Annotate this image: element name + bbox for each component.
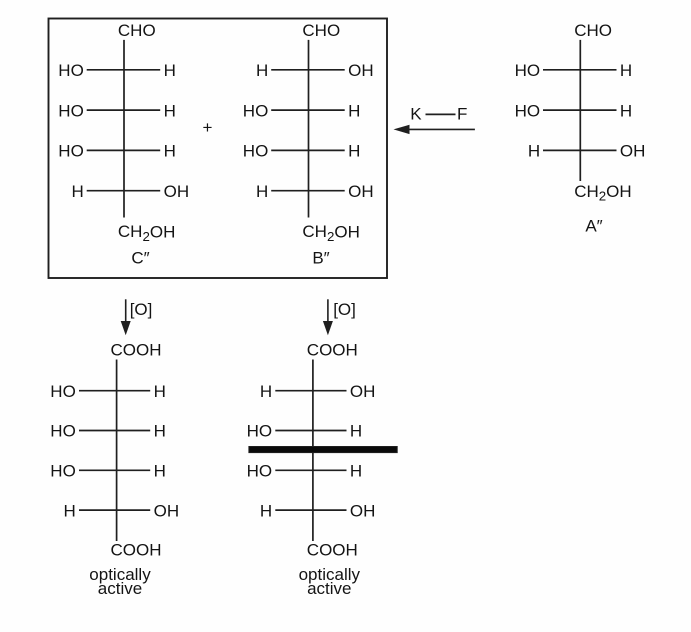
svg-text:CHO: CHO [574, 21, 612, 40]
svg-text:H: H [350, 462, 362, 481]
structure B2prime: C2 right substituent OH [348, 61, 374, 80]
structure B2prime: C5 horizontal bond [271, 190, 345, 192]
svg-text:CH2OH: CH2OH [118, 222, 175, 244]
svg-text:H: H [260, 501, 272, 520]
svg-text:[O]: [O] [333, 300, 356, 319]
structure A2prime: CH2OH bottom group [574, 182, 631, 204]
svg-text:H: H [164, 61, 176, 80]
structure C2prime: C2 right substituent H [164, 61, 176, 80]
svg-text:OH: OH [154, 501, 180, 520]
structure A2prime: C4 left substituent H [528, 142, 540, 161]
svg-text:HO: HO [515, 61, 541, 80]
svg-text:H: H [620, 101, 632, 120]
structure A2prime: C2 left substituent HO [515, 61, 541, 80]
structure B2prime: C5 right substituent OH [348, 182, 374, 201]
structure left diacid (from C"): backbone vertical line [116, 360, 118, 542]
structure left diacid (from C"): C3 left substituent HO [50, 422, 76, 441]
svg-text:CH2OH: CH2OH [574, 182, 631, 204]
structure A2prime: backbone vertical line [579, 40, 581, 181]
plus sign between C" and B" [203, 118, 213, 137]
structure C2prime: C5 right substituent OH [164, 182, 190, 201]
svg-text:H: H [256, 182, 268, 201]
structure left diacid (from C"): C4 right substituent H [154, 462, 166, 481]
structure left diacid (from C"): C4 horizontal bond [79, 469, 150, 471]
structure left diacid (from C"): C3 horizontal bond [79, 430, 150, 432]
structure C2prime: C3 horizontal bond [87, 109, 161, 111]
structure right diacid (from B"): backbone vertical line [312, 360, 314, 542]
structure A2prime: C2 right substituent H [620, 61, 632, 80]
svg-text:A″: A″ [585, 217, 602, 236]
structure B2prime: C2 horizontal bond [271, 69, 345, 71]
structure right diacid (from B"): COOH bottom group [307, 541, 358, 560]
svg-text:active: active [307, 579, 351, 598]
structure B2prime: C3 right substituent H [348, 101, 360, 120]
structure A2prime: C4 right substituent OH [620, 142, 646, 161]
structure right diacid (from B"): C5 right substituent OH [350, 501, 376, 520]
svg-text:HO: HO [58, 142, 84, 161]
svg-text:HO: HO [247, 462, 273, 481]
structure left diacid (from C"): C3 right substituent H [154, 422, 166, 441]
structure A2prime: name label A&#8243; [585, 217, 602, 236]
structure B2prime: CH2OH bottom group [302, 222, 359, 244]
structure C2prime: name label C&#8243; [131, 249, 149, 268]
svg-text:COOH: COOH [307, 341, 358, 360]
structure left diacid (from C"): COOH bottom group [111, 541, 162, 560]
structure right diacid (from B"): C4 left substituent HO [247, 462, 273, 481]
oxidation reagent label [O] left [130, 300, 153, 319]
svg-text:C″: C″ [131, 249, 149, 268]
structure B2prime: CHO top group [302, 21, 340, 40]
svg-text:COOH: COOH [111, 341, 162, 360]
structure right diacid (from B"): C3 horizontal bond [275, 430, 346, 432]
structure right diacid (from B"): C4 horizontal bond [275, 469, 346, 471]
structure C2prime: C3 right substituent H [164, 101, 176, 120]
structure A2prime: C3 right substituent H [620, 101, 632, 120]
structure left diacid (from C"): C2 horizontal bond [79, 390, 150, 392]
structure C2prime: CH2OH bottom group [118, 222, 175, 244]
structure left diacid (from C"): C5 right substituent OH [154, 501, 180, 520]
svg-text:HO: HO [243, 142, 269, 161]
svg-text:OH: OH [350, 501, 376, 520]
structure B2prime: name label B&#8243; [312, 249, 329, 268]
structure left diacid (from C"): C5 horizontal bond [79, 509, 150, 511]
structure B2prime: C3 left substituent HO [243, 101, 269, 120]
svg-text:H: H [164, 101, 176, 120]
structure B2prime: C5 left substituent H [256, 182, 268, 201]
svg-text:H: H [528, 142, 540, 161]
svg-text:F: F [457, 105, 467, 124]
structure C2prime: C4 right substituent H [164, 142, 176, 161]
svg-text:HO: HO [58, 101, 84, 120]
svg-text:OH: OH [164, 182, 190, 201]
structure left diacid (from C"): C4 left substituent HO [50, 462, 76, 481]
svg-text:OH: OH [350, 382, 376, 401]
svg-text:H: H [256, 61, 268, 80]
structure C2prime: C4 horizontal bond [87, 149, 161, 151]
svg-text:active: active [98, 579, 142, 598]
structure left diacid (from C"): C2 left substituent HO [50, 382, 76, 401]
svg-text:HO: HO [50, 462, 76, 481]
svg-text:H: H [154, 382, 166, 401]
structure right diacid (from B"): C3 right substituent H [350, 422, 362, 441]
svg-text:CHO: CHO [118, 21, 156, 40]
svg-text:CHO: CHO [302, 21, 340, 40]
svg-text:HO: HO [515, 101, 541, 120]
structure C2prime: C5 left substituent H [72, 182, 84, 201]
structure C2prime: C5 horizontal bond [87, 190, 161, 192]
oxidation arrow over left product [121, 299, 131, 335]
structure left diacid (from C"): C2 right substituent H [154, 382, 166, 401]
svg-text:[O]: [O] [130, 300, 153, 319]
svg-text:H: H [350, 422, 362, 441]
svg-text:COOH: COOH [111, 541, 162, 560]
svg-text:H: H [72, 182, 84, 201]
svg-text:H: H [164, 142, 176, 161]
thick symmetry bar across right diacid [249, 447, 397, 453]
svg-text:H: H [64, 501, 76, 520]
svg-text:H: H [260, 382, 272, 401]
structure A2prime: CHO top group [574, 21, 612, 40]
structure right diacid (from B"): C4 right substituent H [350, 462, 362, 481]
structure right diacid (from B"): C5 left substituent H [260, 501, 272, 520]
svg-text:OH: OH [348, 182, 374, 201]
svg-text:HO: HO [58, 61, 84, 80]
structure C2prime: C2 horizontal bond [87, 69, 161, 71]
structure C2prime: C3 left substituent HO [58, 101, 84, 120]
structure B2prime: C4 horizontal bond [271, 149, 345, 151]
svg-text:H: H [154, 422, 166, 441]
svg-text:CH2OH: CH2OH [302, 222, 359, 244]
structure left diacid (from C"): caption "optically active" [89, 565, 151, 598]
reaction arrow (right to left) into box [394, 125, 475, 134]
structure A2prime: C3 horizontal bond [543, 109, 617, 111]
svg-text:H: H [348, 142, 360, 161]
structure C2prime: C2 left substituent HO [58, 61, 84, 80]
structure C2prime: C4 left substituent HO [58, 142, 84, 161]
reagent label K-F [410, 105, 467, 124]
svg-text:H: H [620, 61, 632, 80]
svg-text:HO: HO [50, 422, 76, 441]
structure left diacid (from C"): COOH top group [111, 341, 162, 360]
structure B2prime: C2 left substituent H [256, 61, 268, 80]
svg-text:K: K [410, 105, 422, 124]
svg-text:OH: OH [348, 61, 374, 80]
oxidation reagent label [O] right [333, 300, 356, 319]
structure A2prime: C4 horizontal bond [543, 149, 617, 151]
svg-text:H: H [348, 101, 360, 120]
svg-text:OH: OH [620, 142, 646, 161]
structure B2prime: C4 right substituent H [348, 142, 360, 161]
oxidation arrow over right product [323, 299, 333, 335]
structure right diacid (from B"): caption "optically active" [299, 565, 361, 598]
structure right diacid (from B"): C2 horizontal bond [275, 390, 346, 392]
structure right diacid (from B"): C3 left substituent HO [247, 422, 273, 441]
structure A2prime: C3 left substituent HO [515, 101, 541, 120]
structure right diacid (from B"): C2 right substituent OH [350, 382, 376, 401]
svg-text:H: H [154, 462, 166, 481]
structure C2prime: backbone vertical line [123, 40, 125, 218]
svg-text:+: + [203, 118, 213, 137]
svg-text:B″: B″ [312, 249, 329, 268]
structure right diacid (from B"): COOH top group [307, 341, 358, 360]
structure B2prime: C3 horizontal bond [271, 109, 345, 111]
svg-text:HO: HO [50, 382, 76, 401]
structure C2prime: CHO top group [118, 21, 156, 40]
enclosing box around products C" and B" [49, 19, 388, 279]
structure A2prime: C2 horizontal bond [543, 69, 617, 71]
structure B2prime: backbone vertical line [308, 40, 310, 218]
svg-text:HO: HO [243, 101, 269, 120]
svg-text:COOH: COOH [307, 541, 358, 560]
structure B2prime: C4 left substituent HO [243, 142, 269, 161]
structure left diacid (from C"): C5 left substituent H [64, 501, 76, 520]
svg-text:HO: HO [247, 422, 273, 441]
structure right diacid (from B"): C5 horizontal bond [275, 509, 346, 511]
structure right diacid (from B"): C2 left substituent H [260, 382, 272, 401]
